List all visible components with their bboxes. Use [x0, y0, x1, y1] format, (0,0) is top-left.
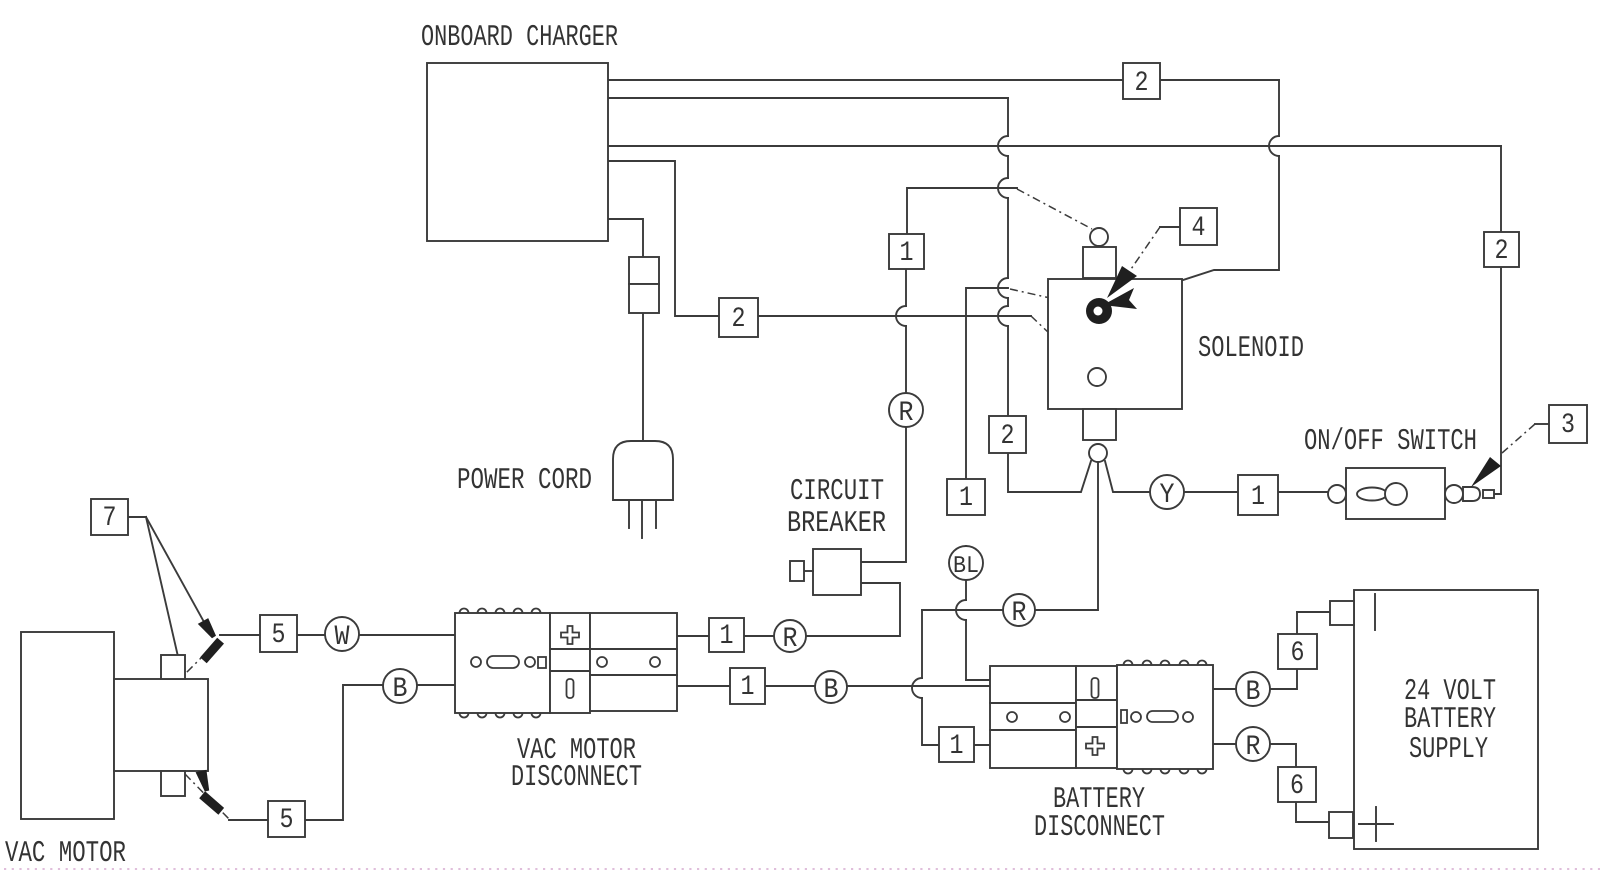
- svg-text:SOLENOID: SOLENOID: [1198, 332, 1304, 366]
- tag box 5 (lower motor lead): [268, 801, 305, 837]
- arrowhead of 4-box leader pointing at knob: [1107, 266, 1137, 298]
- wire: vac motor upper lead through 5 box and W circle: [220, 634, 455, 636]
- tag box 6 (battery positive): [1278, 634, 1317, 669]
- svg-text:6: 6: [1290, 771, 1304, 802]
- tag box 2 (bus to solenoid bottom): [989, 416, 1026, 453]
- wire: battery disconnect R output to battery bottom tab: [1213, 744, 1329, 822]
- solenoid bottom terminal circle: [1089, 444, 1107, 462]
- label CIRCUIT BREAKER: [787, 475, 886, 541]
- wire: circuit breaker lower stub to R/1 wire of vac motor disconnect: [677, 583, 900, 636]
- svg-text:BL: BL: [953, 553, 979, 580]
- leader: 7 box to motor lead connectors: [128, 517, 204, 770]
- wire code circle B (motor black lead): [383, 669, 417, 705]
- wire A: charger top output to solenoid knob leader: [608, 80, 1279, 280]
- svg-text:2: 2: [1135, 68, 1149, 99]
- wire E: charger bottom output to power cord plug: [608, 219, 643, 441]
- svg-text:ONBOARD CHARGER: ONBOARD CHARGER: [421, 21, 618, 55]
- svg-text:DISCONNECT: DISCONNECT: [1034, 811, 1165, 845]
- tag box 3 (switch): [1549, 405, 1587, 443]
- power cord plug body: [613, 441, 673, 500]
- tag box 4 (solenoid): [1180, 208, 1217, 245]
- on/off switch toggle lever: [1357, 488, 1387, 501]
- battery disconnect left box: [990, 666, 1076, 768]
- svg-text:ON/OFF SWITCH: ON/OFF SWITCH: [1304, 425, 1477, 459]
- on/off switch left terminal circle: [1328, 485, 1346, 503]
- solenoid bottom pedestal: [1083, 409, 1116, 440]
- vac motor disconnect middle column: [550, 613, 590, 713]
- svg-text:R: R: [1012, 598, 1027, 629]
- svg-text:5: 5: [280, 805, 294, 836]
- wire: solenoid coil top terminal via 1-box and R circle to circuit breaker: [861, 188, 1017, 562]
- solenoid box: [1048, 279, 1182, 409]
- svg-text:2: 2: [732, 304, 746, 335]
- svg-text:BATTERY: BATTERY: [1404, 703, 1496, 737]
- wire code circle R (solenoid coil feed): [889, 393, 923, 429]
- svg-text:4: 4: [1192, 213, 1206, 244]
- vac motor top terminal block: [161, 655, 185, 679]
- wire D: charger fourth output to solenoid lower terminal: [608, 161, 1031, 316]
- onboard charger box: [427, 63, 608, 241]
- svg-text:R: R: [783, 624, 798, 655]
- wire code circle R (solenoid to battery disconnect): [1003, 594, 1035, 629]
- battery disconnect right connector box with scallops: [1117, 661, 1213, 774]
- wire code circle W (motor white lead): [325, 617, 359, 653]
- solenoid knob (black with white hole): [1086, 298, 1112, 324]
- wire: BL circuit from battery disconnect to solenoid coil: [956, 288, 1008, 680]
- svg-text:6: 6: [1291, 638, 1305, 669]
- battery disconnect middle column: [1076, 666, 1117, 768]
- svg-text:1: 1: [1251, 482, 1265, 513]
- 24 volt battery supply box: [1354, 590, 1538, 849]
- tag box 6 (battery negative): [1278, 767, 1316, 802]
- wire code circle Y (solenoid to switch): [1150, 475, 1184, 511]
- leader dash-dot: lower bowtie region: [185, 774, 229, 819]
- upper bowtie connector on motor lead (leader arrowhead + crimp bar): [198, 618, 224, 663]
- wire C: charger third output to on/off switch via right side: [608, 146, 1501, 494]
- charger output fuse block lower: [629, 284, 659, 313]
- tag box 2 (right wire C): [1484, 232, 1519, 267]
- leader dash-dot: 4 box to knob arrow: [1129, 227, 1180, 272]
- bottom dotted margin line: [4, 868, 1600, 870]
- label BATTERY DISCONNECT: [1034, 783, 1165, 845]
- on/off switch connector tip: [1463, 487, 1494, 501]
- wire B: charger second output to vertical bus x=1008: [608, 98, 1091, 492]
- svg-text:BREAKER: BREAKER: [787, 507, 886, 541]
- vac motor disconnect left connector box with scallops: [455, 609, 550, 718]
- leader dash-dot: bus to solenoid coil top terminal: [1017, 189, 1092, 229]
- tag box 1 (battery disconnect lower): [939, 727, 974, 762]
- tag box 1 (solenoid coil top): [889, 234, 924, 269]
- lower bowtie connector on motor lead (leader arrowhead + crimp bar): [196, 770, 225, 815]
- svg-text:Y: Y: [1160, 480, 1175, 511]
- wire code circle R (battery negative): [1236, 727, 1270, 763]
- tag box 1 (BL wire): [947, 479, 985, 515]
- tag box 1 (Y wire to switch): [1238, 475, 1278, 515]
- leader dash-dot: wire A into solenoid knob: [1134, 280, 1183, 299]
- svg-text:DISCONNECT: DISCONNECT: [511, 761, 642, 795]
- power cord plug prongs: [629, 500, 656, 538]
- circuit breaker body: [813, 549, 861, 595]
- svg-text:1: 1: [720, 621, 734, 652]
- tag box 7 (motor leads): [91, 499, 128, 535]
- svg-text:1: 1: [950, 731, 964, 762]
- svg-text:5: 5: [272, 620, 286, 651]
- battery negative mark: [1374, 594, 1376, 630]
- vac motor body extension: [114, 679, 208, 771]
- arrowhead of 3-box leader pointing at switch connector: [1471, 457, 1501, 487]
- svg-text:POWER CORD: POWER CORD: [457, 464, 592, 498]
- svg-text:VAC MOTOR: VAC MOTOR: [5, 837, 126, 871]
- wire code circle BL (battery disconnect to solenoid coil): [949, 546, 983, 580]
- svg-text:2: 2: [1001, 421, 1015, 452]
- svg-text:3: 3: [1561, 410, 1575, 441]
- svg-text:R: R: [899, 398, 914, 429]
- battery positive mark: [1359, 807, 1393, 841]
- wire code circle B (battery positive): [1236, 672, 1270, 708]
- tag box 5 (upper motor lead): [260, 615, 297, 652]
- arrowhead of wire A leader pointing at knob: [1103, 288, 1137, 309]
- solenoid top terminal circle: [1090, 228, 1108, 246]
- leader dash-dot: wire D to solenoid lower terminal: [1031, 316, 1089, 371]
- svg-text:B: B: [824, 675, 839, 706]
- svg-text:2: 2: [1495, 236, 1509, 267]
- leader dash-dot: BL wire to solenoid knob: [1010, 289, 1086, 306]
- svg-text:SUPPLY: SUPPLY: [1409, 733, 1488, 767]
- svg-text:R: R: [1246, 732, 1261, 763]
- wire: vac motor disconnect B output to battery disconnect: [677, 685, 990, 687]
- svg-text:B: B: [1246, 677, 1261, 708]
- vac motor bottom terminal block: [161, 771, 185, 796]
- svg-text:1: 1: [741, 672, 755, 703]
- battery bottom terminal tab: [1329, 812, 1353, 838]
- wire: battery disconnect B output to battery positive tab: [1213, 612, 1330, 689]
- solenoid top pedestal: [1083, 247, 1116, 278]
- label VAC MOTOR DISCONNECT: [511, 734, 642, 795]
- svg-text:CIRCUIT: CIRCUIT: [790, 475, 884, 509]
- battery top terminal tab: [1330, 601, 1354, 625]
- wire: solenoid bottom terminal down to battery disconnect R path: [912, 462, 1098, 745]
- wire code circle R (vac disconnect plus): [774, 620, 806, 655]
- tag box 1 (vac disconnect R wire): [709, 618, 744, 652]
- svg-text:W: W: [335, 622, 350, 653]
- tag box 2 (wire D): [719, 298, 758, 337]
- tag box 2 (top wire A): [1123, 63, 1160, 99]
- svg-text:B: B: [393, 674, 408, 705]
- on/off switch box: [1346, 468, 1445, 519]
- tag box 1 (vac disconnect B wire): [730, 668, 765, 704]
- on/off switch right terminal circle: [1445, 485, 1463, 503]
- leader dash-dot: upper bowtie to motor terminal: [183, 641, 218, 676]
- charger output fuse block upper: [629, 257, 659, 284]
- solenoid lower internal terminal circle: [1088, 368, 1106, 386]
- svg-text:1: 1: [959, 483, 973, 514]
- svg-text:1: 1: [900, 238, 914, 269]
- svg-text:7: 7: [103, 503, 117, 534]
- on/off switch toggle ball: [1385, 483, 1407, 505]
- label 24 VOLT BATTERY SUPPLY: [1404, 675, 1496, 767]
- wire: vac motor lower lead through 5 box and B circle: [229, 685, 455, 820]
- circuit breaker reset button: [790, 561, 813, 581]
- vac motor disconnect right box: [590, 613, 677, 711]
- vac motor main box: [21, 632, 114, 819]
- wire: solenoid bottom terminal to Y circle and switch: [1105, 461, 1329, 492]
- leader dash-dot: 3 box to switch terminal: [1502, 424, 1549, 453]
- wire code circle B (vac disconnect to battery disconnect): [815, 671, 847, 706]
